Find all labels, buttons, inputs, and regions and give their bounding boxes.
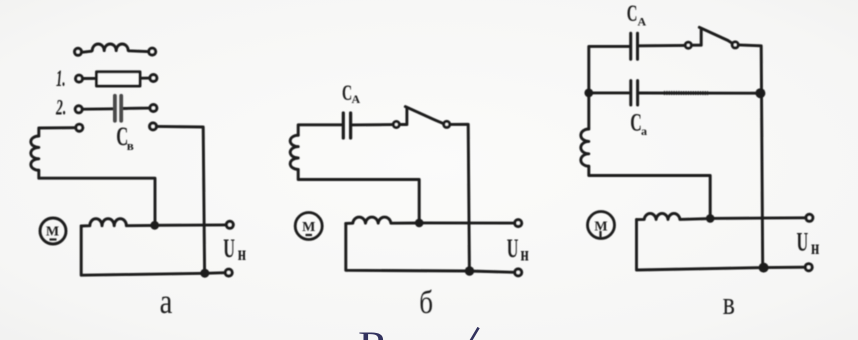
svg-text:Р: Р <box>358 324 385 340</box>
junction dot branch right (circuit v) <box>755 88 765 98</box>
label b (circuit b) <box>419 283 433 320</box>
switch terminal left (circuit v) <box>685 42 691 48</box>
svg-text:U: U <box>223 234 235 263</box>
auxiliary winding coil (circuit b) <box>290 135 298 169</box>
junction dot windings (circuit v) <box>706 214 715 223</box>
motor M2 (circuit b) <box>295 213 322 240</box>
auxiliary winding coil (circuit a) <box>31 136 39 170</box>
motor M3 (circuit v) <box>588 212 615 239</box>
wire main winding to bottom rail (circuit a) <box>81 226 225 275</box>
label UN (circuit v) <box>797 228 809 257</box>
svg-text:б: б <box>419 283 433 320</box>
terminal right row 4 (circuit a) <box>150 123 157 130</box>
svg-text:U: U <box>507 234 519 263</box>
junction dot bottom rail (circuit a) <box>200 269 209 278</box>
textured wire segment (circuit v) <box>664 91 708 95</box>
wire main winding to bottom rail (circuit b) <box>346 223 515 272</box>
label CA (circuit v) <box>627 2 638 27</box>
terminal UN lower (circuit a) <box>225 269 232 276</box>
svg-text:U: U <box>797 228 809 257</box>
junction dot bottom rail (circuit b) <box>465 266 474 275</box>
wire capacitor to aux corner (circuit b) <box>298 125 341 135</box>
label CA (circuit b) <box>342 81 352 105</box>
svg-text:в: в <box>723 286 735 322</box>
terminal left C row (circuit a) <box>75 106 82 113</box>
terminal right C row (circuit a) <box>150 105 157 112</box>
switch terminal right (circuit b) <box>444 121 450 127</box>
switch terminal left (circuit b) <box>393 122 399 128</box>
junction dot branch left (circuit v) <box>584 89 593 98</box>
svg-text:н: н <box>238 242 246 265</box>
parallel capacitor branch wire right (circuit v) <box>639 92 757 95</box>
svg-text:М: М <box>46 225 59 240</box>
terminal UN lower (circuit v) <box>805 264 812 271</box>
svg-text:а: а <box>160 281 173 320</box>
motor M1 (circuit a) <box>40 218 66 244</box>
wire terminal to aux winding (circuit a) <box>39 128 76 136</box>
auxiliary winding coil (circuit v) <box>581 129 589 166</box>
resistor option row 2 (circuit a) <box>83 77 150 80</box>
svg-text:в: в <box>127 138 134 153</box>
terminal left R row (circuit a) <box>76 75 83 82</box>
wire capacitor to switch (circuit b) <box>352 123 393 126</box>
svg-text:н: н <box>521 242 529 265</box>
label v (circuit v) <box>723 286 735 322</box>
label 1. (circuit a) <box>56 66 65 92</box>
switch blade (circuit v) <box>691 27 732 45</box>
svg-text:а: а <box>641 124 647 138</box>
wire switch to bottom junction (circuit b) <box>450 124 470 271</box>
svg-text:н: н <box>811 236 819 259</box>
switch terminal right (circuit v) <box>732 42 738 48</box>
main winding coil (circuit a) <box>81 219 155 226</box>
terminal UN upper (circuit v) <box>806 214 813 221</box>
caption fragment (cut off at bottom) <box>358 324 479 340</box>
wire junction to upper terminal (circuit b) <box>419 221 515 224</box>
parallel capacitor branch wire left (circuit v) <box>589 91 629 94</box>
left vertical wire (circuit v) <box>589 46 629 129</box>
main winding coil (circuit b) <box>346 217 419 223</box>
label a (circuit a) <box>160 281 173 320</box>
capacitor Ca plates (circuit v) <box>631 81 638 105</box>
capacitor CA plates (circuit v) <box>631 33 638 59</box>
junction dot windings (circuit b) <box>415 219 424 228</box>
svg-text:1.: 1. <box>56 66 65 92</box>
svg-text:С: С <box>627 2 638 27</box>
wire junction to upper terminal (circuit v) <box>710 216 806 219</box>
svg-text:М: М <box>302 220 315 235</box>
terminal UN upper (circuit a) <box>226 221 233 228</box>
wire aux winding to junction (circuit v) <box>589 166 710 218</box>
wire aux winding to junction (circuit b) <box>298 169 419 222</box>
svg-text:А: А <box>352 92 361 106</box>
label 2. (circuit a) <box>55 95 66 119</box>
main winding coil (circuit v) <box>637 213 711 219</box>
capacitor branch wire (circuit a) <box>156 126 204 273</box>
svg-text:А: А <box>638 15 647 29</box>
svg-text:2.: 2. <box>55 95 66 119</box>
terminal right L row (circuit a) <box>149 48 156 55</box>
wire junction to upper terminal (circuit a) <box>155 223 227 226</box>
label Ca (circuit v) <box>630 108 642 137</box>
terminal UN upper (circuit b) <box>515 220 522 227</box>
switch blade (circuit b) <box>399 107 443 125</box>
wire main winding to bottom rail (circuit v) <box>637 220 806 270</box>
inductor option row 1 (circuit a) <box>83 44 148 52</box>
terminal left row 4 (circuit a) <box>76 124 83 131</box>
label UN (circuit b) <box>507 234 519 263</box>
capacitor CA (circuit b) <box>343 113 350 138</box>
terminal right R row (circuit a) <box>150 75 157 82</box>
label UN (circuit a) <box>223 234 235 263</box>
label CB (circuit a) <box>116 122 128 151</box>
wire aux winding to junction (circuit a) <box>39 170 155 225</box>
junction dot bottom rail (circuit v) <box>759 263 769 273</box>
junction dot windings (circuit a) <box>150 221 159 230</box>
terminal left L row (circuit a) <box>75 48 82 55</box>
wire capacitor to switch (circuit v) <box>639 44 685 47</box>
right vertical wire (circuit v) <box>738 45 762 268</box>
terminal UN lower (circuit b) <box>515 269 522 276</box>
capacitor CB option row 3 (circuit a) <box>82 108 150 109</box>
